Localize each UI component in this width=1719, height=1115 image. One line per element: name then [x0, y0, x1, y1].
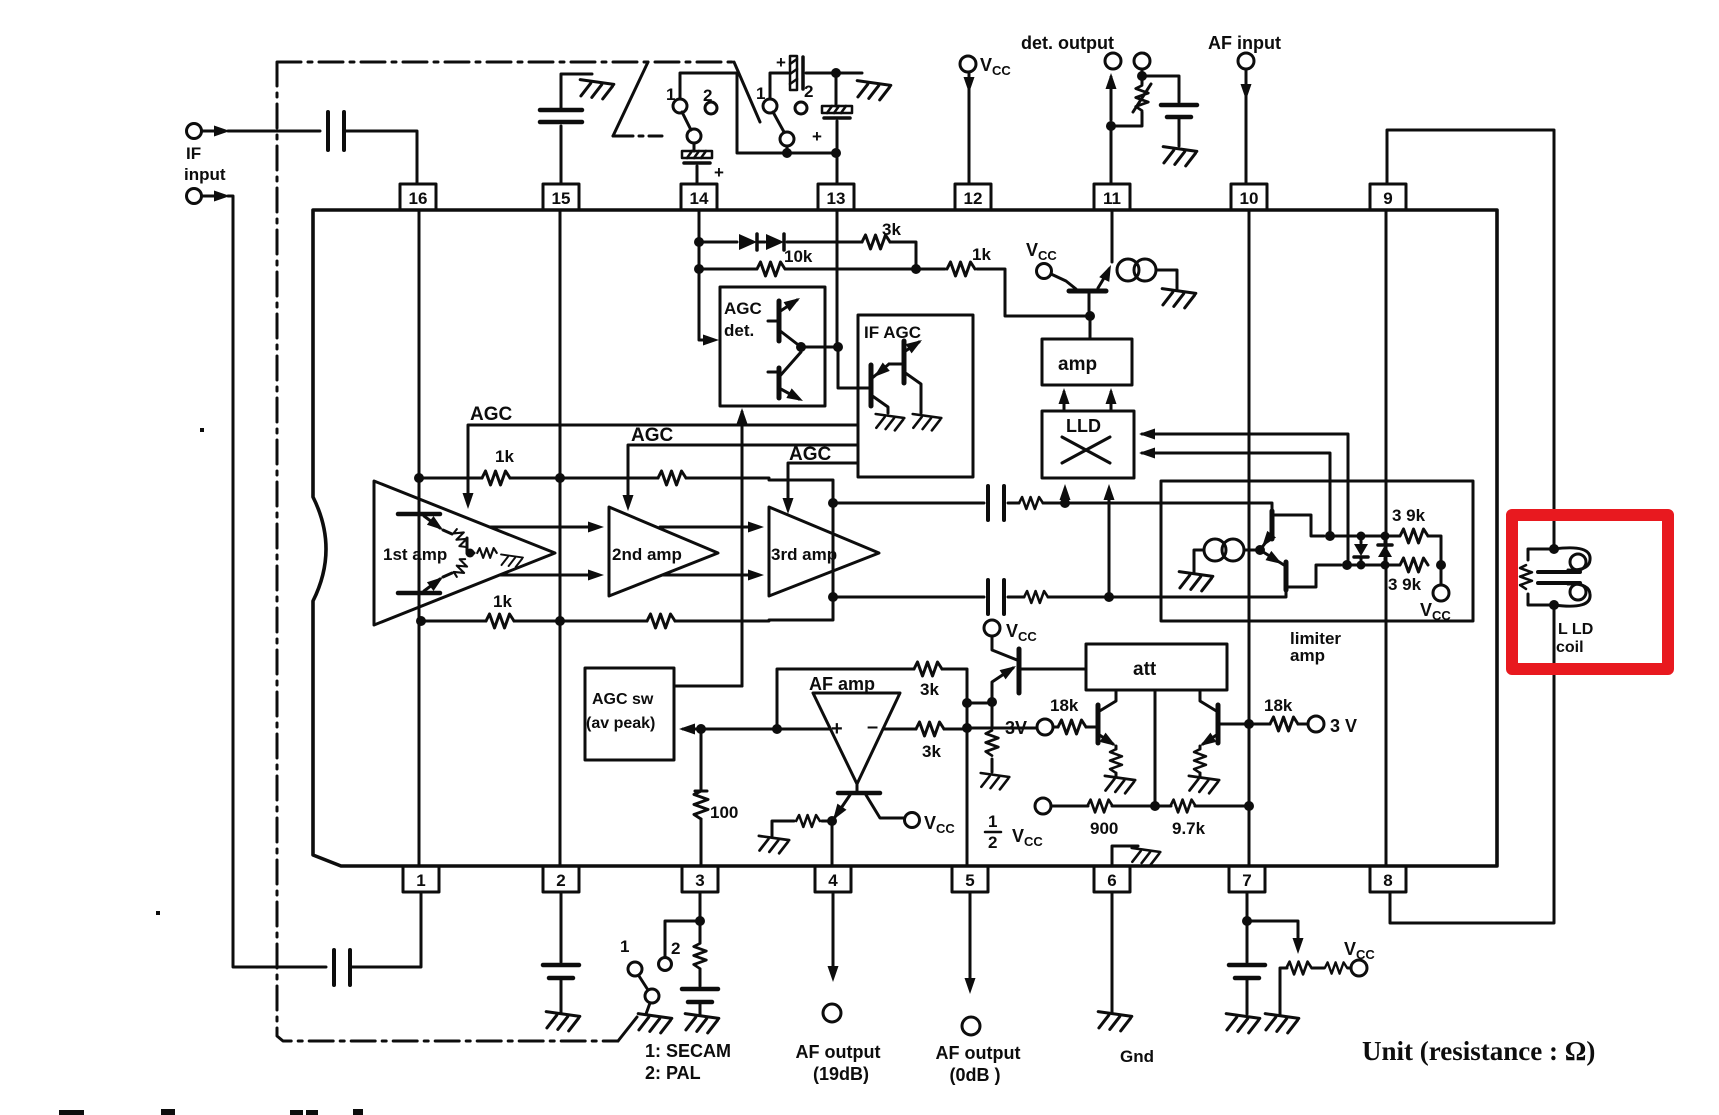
svg-text:1: 1	[756, 84, 765, 103]
wire AF input to pin 10	[1245, 69, 1248, 184]
svg-text:3V: 3V	[1005, 718, 1027, 738]
wire AGC sw input line	[683, 728, 830, 731]
svg-text:2: 2	[988, 833, 997, 852]
resistor R att right emitter	[1199, 746, 1202, 776]
svg-text:9: 9	[1383, 189, 1392, 208]
pin 5	[952, 866, 988, 892]
junction limiter lower net	[1342, 560, 1352, 570]
ground pin 3 cap	[683, 1014, 719, 1035]
ground pin 2	[544, 1012, 580, 1033]
junction pin4 node	[827, 816, 837, 826]
switch S3 pole and lever	[645, 989, 659, 1003]
junction node 13 top	[831, 68, 841, 78]
transistor Q4b (IF AGC right)	[889, 335, 925, 413]
red highlight box	[1512, 515, 1668, 669]
capacitor C12	[1229, 965, 1265, 978]
wire C1 to pin 16	[344, 131, 417, 184]
svg-text:1k: 1k	[495, 447, 514, 466]
svg-text:10k: 10k	[784, 247, 813, 266]
wire switch S1 frame	[680, 73, 836, 153]
svg-text:amp: amp	[1290, 646, 1325, 665]
pin 11	[1094, 184, 1130, 210]
wire pin 6 to ground	[1111, 892, 1114, 1012]
resistor R coup lower	[1024, 591, 1048, 603]
svg-text:100: 100	[710, 803, 738, 822]
svg-text:2: 2	[804, 82, 813, 101]
junction top line mid	[555, 473, 565, 483]
svg-text:3rd amp: 3rd amp	[771, 545, 837, 564]
svg-text:AF output: AF output	[796, 1042, 881, 1062]
wire feedback bottom 1k line	[421, 620, 769, 623]
wire C12 to ground	[1246, 980, 1249, 1014]
LLD mixer cross	[1062, 437, 1110, 463]
junction top line left	[414, 473, 424, 483]
switch S2 contact 1	[763, 99, 777, 113]
switch S1 contact 1	[673, 99, 687, 113]
terminal AF output 0dB	[962, 1017, 980, 1035]
capacitor C6 electrolytic at pin 13	[835, 73, 838, 106]
switch S2 pole and lever	[780, 132, 794, 146]
wire LLD to amp (left arrow)	[1063, 392, 1066, 410]
ground att right	[1187, 776, 1219, 795]
svg-text:2: 2	[671, 939, 680, 958]
ground for C7	[1161, 147, 1197, 168]
current source I2	[1117, 259, 1139, 281]
junction pin3 node	[696, 724, 706, 734]
resistor R (1st amp upper)	[452, 527, 469, 549]
resistor R (1st amp mid)	[467, 538, 474, 553]
current source I1	[1204, 539, 1226, 561]
svg-text:18k: 18k	[1050, 696, 1079, 715]
wire pin 11 internal	[1111, 210, 1114, 262]
svg-text:L LD: L LD	[1558, 621, 1593, 638]
junction bottom line mid	[555, 616, 565, 626]
svg-text:6: 6	[1107, 871, 1116, 890]
resistor R 10k	[757, 262, 785, 276]
ground IF AGC right	[911, 414, 942, 431]
wire att mid lead	[1154, 690, 1157, 806]
wire AF minus line	[883, 728, 916, 731]
pin 8	[1370, 866, 1406, 892]
svg-text:15: 15	[552, 189, 571, 208]
ground att left	[1103, 776, 1135, 795]
wire into LLD right lower	[1142, 453, 1330, 536]
svg-text:10: 10	[1240, 189, 1259, 208]
svg-text:2: 2	[703, 86, 712, 105]
wire 3k top to node5	[942, 669, 967, 700]
wire pin 3 internal	[700, 729, 703, 866]
transistor Q4a (IF AGC left)	[870, 363, 889, 413]
wire AF amp feedback riser	[777, 669, 914, 729]
pin 7	[1229, 866, 1265, 892]
wire C6 to pin 13	[836, 121, 839, 184]
svg-text:7: 7	[1242, 871, 1251, 890]
wire IF input lower loop to C2	[202, 196, 326, 967]
wire AGC det out to pin13 rail	[801, 346, 838, 349]
svg-text:3k: 3k	[882, 220, 901, 239]
op-amp 3rd amp	[769, 507, 879, 596]
svg-text:1: 1	[620, 937, 629, 956]
svg-text:18k: 18k	[1264, 696, 1293, 715]
capacitor C4 electrolytic at pin 14	[682, 151, 712, 163]
ground for I1	[1177, 572, 1213, 593]
junction S2 pole	[782, 148, 792, 158]
switch S1 pole and lever	[687, 129, 701, 143]
resistor R pin3	[694, 943, 707, 968]
svg-text:(0dB ): (0dB )	[950, 1065, 1001, 1085]
wire pot to ground	[1280, 968, 1287, 1014]
potentiometer R pot	[1286, 962, 1311, 975]
transistor Q1 (AGC det upper)	[768, 293, 803, 347]
wire C4 to pin 14	[696, 166, 699, 184]
svg-text:8: 8	[1383, 871, 1392, 890]
junction 10k line	[694, 264, 704, 274]
wire S2 contact1 riser	[770, 73, 788, 99]
svg-text:att: att	[1133, 659, 1157, 680]
AGC line 2	[628, 445, 858, 506]
svg-text:amp: amp	[1058, 354, 1097, 375]
terminal Vcc (amp)	[1037, 264, 1052, 279]
ground C12	[1224, 1014, 1260, 1035]
resistor R 18k left	[1058, 720, 1086, 734]
svg-text:AF input: AF input	[1208, 33, 1281, 53]
wire 3k to 10k node	[890, 242, 916, 269]
svg-text:3 9k: 3 9k	[1392, 506, 1426, 525]
svg-text:11: 11	[1103, 189, 1121, 208]
svg-text:+: +	[714, 163, 724, 182]
ground Q12 base	[757, 836, 789, 855]
wire pin 11 to det output A	[1110, 77, 1113, 184]
transistor Q3 (amp driver)	[1051, 263, 1116, 316]
pin 13	[818, 184, 854, 210]
ground at node 13 top	[855, 81, 891, 102]
pin 12	[955, 184, 991, 210]
svg-text:2: 2	[556, 871, 565, 890]
wire pin 13 internal	[836, 210, 839, 347]
svg-text:3 9k: 3 9k	[1388, 575, 1422, 594]
wire Q12 to pin 4	[831, 821, 834, 866]
AGC det block	[720, 287, 825, 406]
svg-text:2nd amp: 2nd amp	[612, 545, 682, 564]
wire pin16-pin1 rail	[418, 210, 421, 866]
transistor Q7 (1st amp upper)	[398, 514, 452, 534]
IC body outline U1	[313, 210, 1497, 866]
AGC line 1	[468, 425, 858, 504]
terminal Vcc pin 12	[960, 56, 976, 72]
wire 3k bottom to node5	[944, 728, 967, 731]
resistor R 3k (top)	[862, 235, 890, 249]
switch S3 contact 2	[659, 958, 672, 971]
capacitor C5 electrolytic (series, top)	[790, 56, 803, 90]
wire diode line	[699, 241, 862, 244]
wire det B to C7	[1142, 76, 1179, 102]
junction limiter upper net	[1325, 531, 1335, 541]
wire C11 to ground	[699, 1004, 702, 1014]
pin 6	[1094, 866, 1130, 892]
junction pin13 / IF AGC	[833, 342, 843, 352]
IF AGC block	[858, 315, 973, 477]
switch S3 contact 1	[628, 962, 642, 976]
wire pin 6 gnd bracket (inside)	[1112, 846, 1138, 866]
wire pin7 to pot	[1247, 921, 1298, 948]
wire 1st to 2nd upper	[490, 526, 598, 529]
svg-text:AGC: AGC	[789, 444, 832, 465]
svg-text:+: +	[831, 718, 843, 740]
svg-text:1: SECAM: 1: SECAM	[645, 1041, 731, 1061]
junction lower net right	[1436, 560, 1446, 570]
resistor R 100	[694, 791, 708, 819]
terminal Vcc Q12	[905, 813, 920, 828]
resistor R 1k (top)	[947, 262, 975, 276]
terminal AF output 19dB	[823, 1004, 841, 1022]
wire upper net	[1330, 535, 1399, 538]
resistor R 9.7k	[1170, 800, 1195, 813]
svg-text:AGC: AGC	[631, 425, 674, 446]
limiter amp box	[1161, 481, 1473, 621]
junction 10k-1k	[911, 264, 921, 274]
junction pin7 rail	[1244, 801, 1254, 811]
svg-text:3k: 3k	[922, 742, 941, 761]
wire node5 rail to pin 5	[966, 700, 969, 866]
terminal IF input (lower)	[187, 189, 202, 204]
resistor R series Vcc	[1325, 962, 1347, 973]
wire 2nd to 3rd lower	[663, 574, 758, 577]
ground for I2	[1160, 289, 1196, 310]
wire 10k line	[699, 269, 1085, 316]
svg-text:Unit (resistance : Ω): Unit (resistance : Ω)	[1362, 1036, 1595, 1066]
AGC sw block	[585, 668, 674, 760]
capacitor C3 at pin 15	[561, 74, 592, 184]
svg-text:3 V: 3 V	[1330, 716, 1357, 736]
resistor R-det (variable)	[1116, 69, 1142, 126]
diode D2	[766, 234, 784, 250]
terminal 3V left	[1037, 719, 1053, 735]
wire Vcc to pin 12	[968, 72, 971, 184]
wire I1 to ground	[1194, 550, 1204, 572]
transistor Q12 (AF amp output)	[828, 784, 904, 823]
pin 9	[1370, 184, 1406, 210]
terminal 3V right	[1308, 716, 1324, 732]
capacitor C7	[1161, 105, 1197, 117]
pin 1	[403, 866, 439, 892]
wire S1 pole to C4	[693, 143, 696, 151]
svg-text:det.: det.	[724, 321, 754, 340]
transistor Q8 (1st amp lower)	[398, 573, 452, 593]
svg-text:det. output: det. output	[1021, 33, 1114, 53]
wire LLD to amp (right arrow)	[1110, 392, 1113, 410]
resistor R 3k (AF top)	[914, 662, 942, 676]
svg-text:14: 14	[690, 189, 709, 208]
capacitor C10	[543, 965, 579, 978]
label half Vcc	[988, 812, 1043, 852]
junction under det output B	[1137, 71, 1147, 81]
wire into LLD bottom-right	[1108, 489, 1111, 597]
svg-text:3: 3	[695, 871, 704, 890]
junction diode line	[694, 237, 704, 247]
wire coupling lower	[833, 590, 1286, 597]
junction 3rd out lower	[828, 592, 838, 602]
wire pin 9 internal rail	[1385, 210, 1388, 866]
wire coupling upper	[833, 503, 1272, 511]
amp block	[1042, 339, 1132, 385]
wire C5 to node 13 top	[806, 72, 862, 75]
wire pin 10 internal rail	[1248, 210, 1251, 866]
junction pin 7 ext	[1242, 916, 1252, 926]
wire 3rd amp bracket	[769, 480, 833, 620]
svg-text:coil: coil	[1556, 639, 1584, 656]
wire att right base to pin10 rail	[1218, 723, 1249, 726]
junction att mid	[1150, 801, 1160, 811]
terminal det output A	[1105, 53, 1121, 69]
svg-text:4: 4	[828, 871, 838, 890]
op-amp AF amp	[813, 693, 900, 784]
junction coupling lower	[1104, 592, 1114, 602]
wire IF input upper to C1	[202, 130, 320, 133]
pin 10	[1231, 184, 1267, 210]
svg-text:AGC: AGC	[724, 299, 762, 318]
wire 1st to 2nd lower	[500, 574, 598, 577]
resistor R 18k right	[1270, 717, 1298, 731]
svg-text:13: 13	[827, 189, 846, 208]
ground pot	[1263, 1014, 1299, 1035]
LLD coil transformer T1	[1520, 544, 1590, 610]
wire into LLD right upper	[1142, 434, 1348, 564]
wire into LLD bottom-left	[1064, 489, 1067, 505]
op-amp 1st amp	[374, 481, 555, 625]
pin 16	[400, 184, 436, 210]
svg-text:IF AGC: IF AGC	[864, 323, 921, 342]
terminal IF input (upper)	[187, 124, 202, 139]
terminal att bias	[1035, 798, 1051, 814]
wire 2nd to 3rd upper	[660, 526, 758, 529]
svg-text:9.7k: 9.7k	[1172, 819, 1206, 838]
svg-text:1: 1	[988, 812, 997, 831]
wire 3V left line	[967, 727, 1037, 730]
wire pin 3 drop	[699, 892, 702, 986]
wire pin 4 output	[832, 892, 835, 976]
pin 15	[543, 184, 579, 210]
resistor R (fb top 2)	[658, 471, 686, 485]
transistor Q5 (limiter upper)	[1258, 511, 1324, 550]
wire pin 14 internal drop	[699, 210, 712, 340]
svg-text:(av peak): (av peak)	[586, 715, 655, 732]
junction pin10 rail 3V	[1244, 719, 1254, 729]
junction emitter node	[1255, 545, 1265, 555]
wire node to amp	[1089, 316, 1092, 339]
svg-text:(19dB): (19dB)	[813, 1064, 869, 1084]
svg-text:–: –	[867, 716, 878, 738]
wire 900/9.7k line	[1051, 805, 1249, 808]
resistor R 3.9k lower	[1400, 558, 1428, 572]
junction pin11 node	[1106, 121, 1116, 131]
junction pin 3 ext	[695, 916, 705, 926]
resistor R base Q12	[772, 821, 832, 836]
ganged switch link 2	[734, 62, 760, 122]
resistor R att left emitter	[1115, 746, 1118, 776]
svg-text:IF: IF	[186, 144, 201, 163]
capacitor C2 (bottom left)	[334, 950, 350, 985]
att block	[1086, 644, 1227, 690]
terminal AF input	[1238, 53, 1254, 69]
junction AGC det output	[796, 342, 806, 352]
svg-text:2: PAL: 2: PAL	[645, 1063, 701, 1083]
resistor R (1st amp lower)	[452, 557, 469, 579]
ground 1st amp	[500, 554, 523, 567]
diode D3	[1354, 532, 1368, 570]
AGC line 3	[788, 463, 858, 509]
pin 3	[682, 866, 718, 892]
terminal Vcc (AF amp follower)	[984, 620, 1000, 636]
svg-text:AGC sw: AGC sw	[592, 691, 654, 708]
svg-text:AF output: AF output	[936, 1043, 1021, 1063]
svg-text:1: 1	[416, 871, 425, 890]
wire S2 pole to node	[786, 146, 789, 153]
ganged switch link 1	[613, 62, 648, 136]
resistor R 3.9k upper	[1400, 529, 1428, 543]
wire Q9 to att	[1019, 668, 1086, 671]
wire I1 to emitter node	[1244, 549, 1260, 552]
capacitor C1 (IF input top)	[328, 112, 344, 150]
capacitor C9	[988, 580, 1004, 614]
wire AGC sw output up	[674, 685, 742, 688]
transistor Q6 (limiter lower)	[1260, 550, 1341, 590]
switch S1 contact 2	[705, 102, 717, 114]
svg-text:AGC: AGC	[470, 404, 513, 425]
junction coupling upper	[1060, 498, 1070, 508]
svg-text:12: 12	[964, 189, 983, 208]
svg-text:1k: 1k	[493, 592, 512, 611]
wire I2 to ground	[1156, 270, 1177, 289]
transistor Q10 (att left)	[1098, 690, 1119, 751]
ground S3	[636, 1014, 672, 1035]
ganged switch link 3 (bottom)	[618, 1017, 637, 1041]
transistor Q11 (att right)	[1197, 690, 1218, 751]
wire lower net	[1347, 564, 1399, 567]
terminal det output B	[1134, 53, 1150, 69]
terminal Vcc limiter	[1440, 565, 1443, 585]
transistor Q2 (AGC det lower)	[768, 352, 806, 406]
wire pin15-pin2 rail	[559, 210, 562, 866]
wire C2 to pin 1	[350, 892, 421, 967]
svg-text:16: 16	[409, 189, 428, 208]
resistor R coup upper	[1019, 497, 1043, 509]
wire pin3 to switch S3 contact 2	[665, 921, 700, 957]
svg-text:AF amp: AF amp	[809, 674, 875, 694]
svg-text:900: 900	[1090, 819, 1118, 838]
svg-text:5: 5	[965, 871, 974, 890]
wire AGC sw riser	[741, 412, 744, 686]
wire pin 9 loop to LLD coil	[1387, 130, 1554, 923]
capacitor C11	[682, 989, 718, 1002]
wire pin 5 output	[969, 892, 972, 988]
wire upper 3.9k to corner	[1428, 536, 1441, 565]
junction bottom line left	[416, 616, 426, 626]
op-amp 2nd amp	[609, 507, 718, 596]
wire to IF AGC input	[838, 347, 871, 388]
junction 3rd out upper	[828, 498, 838, 508]
junction node 13 mid	[831, 148, 841, 158]
svg-text:3k: 3k	[920, 680, 939, 699]
junction AF amp + node	[772, 724, 782, 734]
resistor R 900	[1087, 800, 1112, 813]
resistor R emitter	[991, 702, 994, 772]
transistor Q9 (att driver)	[967, 636, 1019, 707]
pin 4	[815, 866, 851, 892]
svg-text:1: 1	[666, 85, 675, 104]
ground IF AGC left	[874, 414, 905, 431]
pin 2	[543, 866, 579, 892]
LLD block	[1042, 411, 1134, 478]
